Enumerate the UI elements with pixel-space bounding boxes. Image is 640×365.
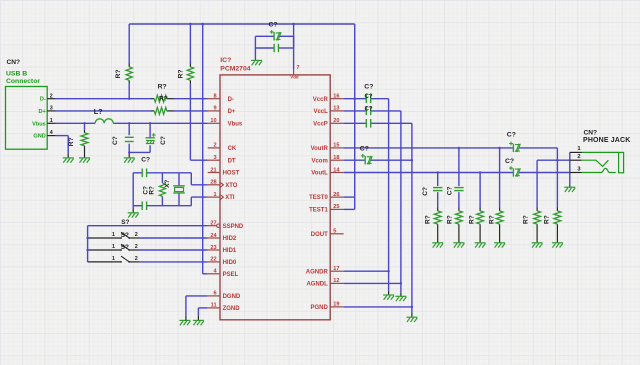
svg-text:PSEL: PSEL — [223, 272, 239, 278]
svg-text:20: 20 — [333, 118, 339, 124]
svg-text:C?: C? — [505, 158, 514, 165]
svg-text:D-: D- — [228, 97, 234, 103]
svg-text:HID2: HID2 — [223, 236, 237, 242]
svg-text:22: 22 — [210, 257, 216, 263]
svg-text:C?: C? — [422, 187, 429, 196]
svg-text:R?: R? — [468, 215, 475, 224]
svg-text:27: 27 — [210, 221, 216, 227]
svg-text:26: 26 — [333, 192, 339, 198]
svg-text:C?: C? — [364, 84, 373, 91]
svg-text:S?: S? — [121, 232, 129, 239]
svg-text:R?: R? — [425, 215, 432, 224]
svg-text:R?: R? — [489, 215, 496, 224]
svg-text:ZGND: ZGND — [223, 306, 241, 312]
svg-text:HOST: HOST — [223, 171, 240, 177]
svg-text:C?: C? — [360, 146, 369, 153]
svg-text:C?: C? — [269, 21, 278, 28]
svg-text:XTI: XTI — [225, 195, 235, 201]
svg-text:1: 1 — [112, 256, 115, 262]
svg-text:Vbus: Vbus — [32, 121, 46, 127]
svg-text:21: 21 — [210, 167, 216, 173]
svg-text:IC?: IC? — [220, 57, 231, 64]
svg-text:C?: C? — [141, 156, 150, 163]
svg-text:25: 25 — [333, 204, 339, 210]
svg-text:15: 15 — [333, 143, 339, 149]
svg-text:PGND: PGND — [310, 305, 328, 311]
svg-text:C?: C? — [507, 131, 516, 138]
svg-text:USB B: USB B — [6, 70, 27, 77]
svg-text:1: 1 — [112, 244, 115, 250]
svg-text:VccL: VccL — [313, 109, 328, 115]
svg-text:D-: D- — [40, 97, 46, 103]
svg-text:C?: C? — [365, 106, 373, 112]
svg-text:CN?: CN? — [584, 129, 598, 136]
svg-text:R?: R? — [115, 69, 122, 78]
svg-text:DT: DT — [228, 158, 236, 164]
svg-text:D+: D+ — [38, 109, 46, 115]
svg-text:L?: L? — [94, 107, 103, 116]
svg-text:S?: S? — [121, 219, 129, 226]
svg-text:VccR: VccR — [313, 97, 329, 103]
svg-text:AGNDL: AGNDL — [306, 282, 328, 288]
svg-text:1: 1 — [213, 192, 216, 198]
svg-text:DOUT: DOUT — [311, 232, 328, 238]
svg-text:2: 2 — [577, 154, 580, 160]
svg-text:R?: R? — [158, 84, 167, 91]
svg-text:24: 24 — [210, 233, 217, 239]
svg-text:2: 2 — [135, 232, 138, 238]
svg-text:TEST1: TEST1 — [309, 208, 328, 214]
svg-text:VoutR: VoutR — [311, 146, 329, 152]
svg-text:R?: R? — [544, 215, 551, 224]
svg-text:Connector: Connector — [6, 78, 40, 85]
svg-text:14: 14 — [333, 167, 340, 173]
svg-text:28: 28 — [210, 180, 216, 186]
svg-text:18: 18 — [333, 155, 339, 161]
svg-text:8: 8 — [213, 94, 216, 100]
svg-text:19: 19 — [333, 302, 339, 308]
svg-text:16: 16 — [333, 94, 339, 100]
svg-text:Vbus: Vbus — [228, 121, 243, 127]
svg-text:R?: R? — [159, 96, 168, 103]
svg-text:R?: R? — [446, 215, 453, 224]
svg-text:HID0: HID0 — [223, 260, 237, 266]
svg-text:C?: C? — [365, 94, 373, 100]
svg-text:GND: GND — [33, 134, 45, 140]
svg-text:S?: S? — [121, 244, 129, 251]
svg-text:4: 4 — [50, 130, 53, 136]
svg-text:6: 6 — [213, 291, 216, 297]
svg-text:VccP: VccP — [313, 121, 328, 127]
svg-text:2: 2 — [50, 93, 53, 99]
svg-text:R?: R? — [148, 186, 155, 195]
svg-text:9: 9 — [213, 106, 216, 112]
svg-text:Vdd: Vdd — [290, 75, 299, 80]
svg-text:1: 1 — [50, 118, 53, 124]
svg-text:3: 3 — [50, 106, 53, 112]
svg-text:2: 2 — [135, 244, 138, 250]
svg-text:1: 1 — [112, 232, 115, 238]
svg-text:23: 23 — [210, 245, 216, 251]
svg-text:PHONE JACK: PHONE JACK — [583, 137, 630, 144]
svg-text:DGND: DGND — [223, 294, 241, 300]
svg-text:SSPND: SSPND — [223, 224, 244, 230]
svg-text:17: 17 — [333, 266, 339, 272]
svg-text:Vcom: Vcom — [311, 158, 327, 164]
svg-text:C?: C? — [160, 136, 167, 145]
svg-text:CN?: CN? — [7, 59, 21, 66]
svg-text:5: 5 — [333, 229, 336, 235]
svg-text:XTO: XTO — [225, 183, 238, 189]
svg-text:HID1: HID1 — [223, 248, 237, 254]
svg-text:D+: D+ — [228, 109, 236, 115]
svg-text:C?: C? — [112, 136, 119, 145]
svg-text:2: 2 — [213, 143, 216, 149]
svg-text:R?: R? — [177, 69, 184, 78]
svg-text:13: 13 — [333, 106, 339, 112]
svg-text:PCM2704: PCM2704 — [220, 65, 250, 72]
svg-text:3: 3 — [213, 155, 216, 161]
svg-text:10: 10 — [210, 118, 216, 124]
svg-text:AGNDR: AGNDR — [306, 269, 329, 275]
svg-text:11: 11 — [211, 303, 217, 309]
svg-text:2: 2 — [135, 256, 138, 262]
svg-text:12: 12 — [333, 278, 339, 284]
svg-text:VoutL: VoutL — [311, 171, 328, 177]
svg-text:X?: X? — [164, 180, 171, 188]
svg-text:R?: R? — [68, 137, 75, 146]
svg-text:CK: CK — [228, 146, 237, 152]
svg-text:R?: R? — [523, 215, 530, 224]
svg-text:TEST0: TEST0 — [309, 195, 328, 201]
svg-text:7: 7 — [297, 65, 300, 71]
svg-text:C?: C? — [446, 186, 453, 195]
